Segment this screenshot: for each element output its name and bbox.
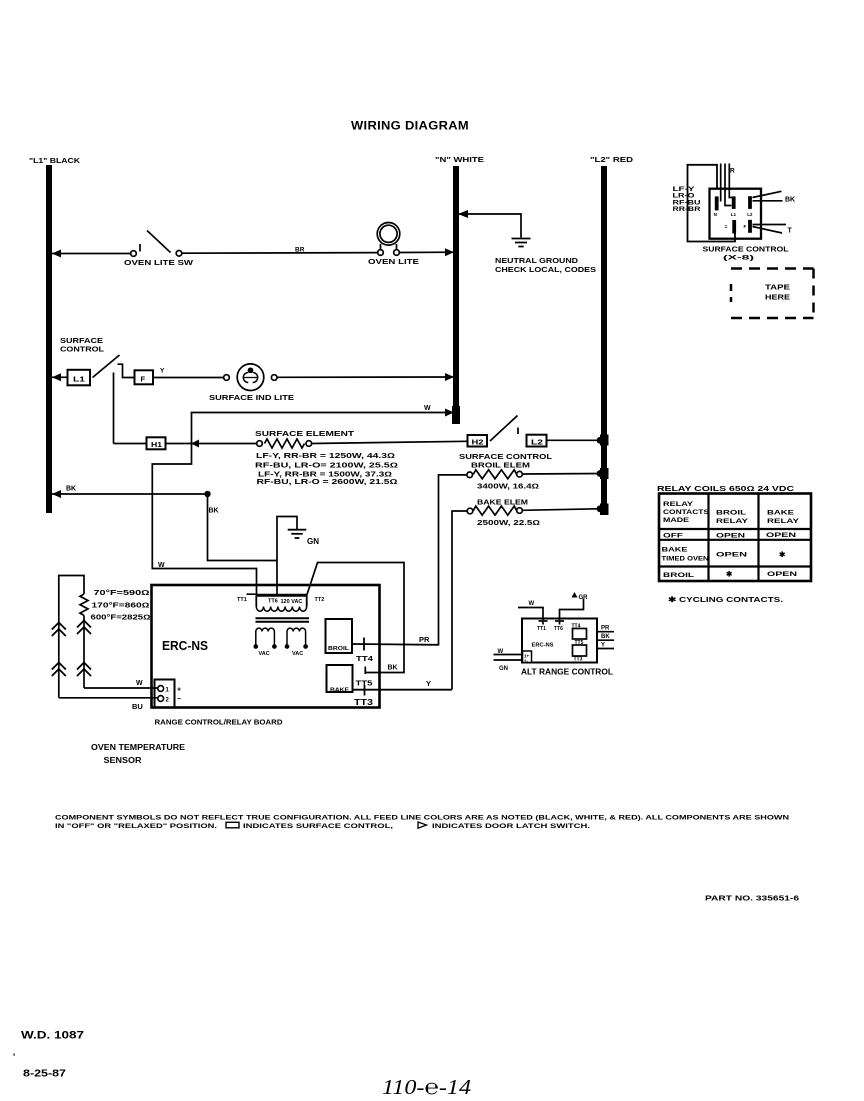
svg-text:N: N [714,212,717,217]
connector X-8 box [710,189,762,239]
junction L1 bus oven-lite [52,250,61,258]
ground neutral [512,239,531,247]
connector pin A [715,196,719,210]
svg-text:1: 1 [166,687,170,693]
svg-text:RELAY COILS 650Ω 24 VDC: RELAY COILS 650Ω 24 VDC [657,486,794,493]
svg-text:BROIL: BROIL [663,572,694,579]
terminal box H2 [468,435,488,447]
svg-text:SURFACE ELEMENT: SURFACE ELEMENT [255,429,355,438]
svg-text:TT4: TT4 [356,654,374,663]
svg-text:W.D. 1087: W.D. 1087 [21,1030,84,1042]
transformer secondary left [254,628,276,648]
svg-text:PART NO. 335651-6: PART NO. 335651-6 [705,896,799,903]
svg-text:LF-Y, RR-BR = 1250W, 44.3Ω: LF-Y, RR-BR = 1250W, 44.3Ω [256,453,395,460]
connector pin E [748,220,752,233]
wire H1 to junction [114,443,257,445]
svg-text:BAKE: BAKE [662,547,689,554]
svg-text:BR: BR [295,247,305,254]
svg-text:VAC: VAC [292,651,303,657]
svg-text:=: = [725,225,728,231]
svg-text:TT6: TT6 [554,626,563,632]
svg-text:RANGE CONTROL/RELAY BOARD: RANGE CONTROL/RELAY BOARD [155,718,284,727]
sensor loop wires [59,576,158,698]
svg-text:70°F=590Ω: 70°F=590Ω [94,589,150,597]
svg-text:RELAY: RELAY [716,518,749,525]
svg-text:RELAY: RELAY [663,501,694,508]
svg-text:LR-O: LR-O [673,194,695,200]
lamp SURFACE IND LITE [224,364,277,391]
svg-text:W: W [158,562,165,569]
svg-text:NEUTRAL GROUND: NEUTRAL GROUND [495,256,579,265]
svg-text:L2: L2 [747,212,753,217]
svg-text:CONTACTS: CONTACTS [663,509,710,516]
svg-text:"N" WHITE: "N" WHITE [435,157,484,164]
svg-text:2500W, 22.5Ω: 2500W, 22.5Ω [477,520,540,527]
wire ind lite to N bus [277,376,455,378]
svg-text:': ' [13,1052,15,1062]
svg-text:3400W, 16.4Ω: 3400W, 16.4Ω [477,484,539,491]
wire L1 bus to L1 box [52,376,67,378]
connector bracket wire [688,165,736,242]
junction L2 bus broil [600,468,609,479]
svg-text:LF-Y, RR-BR = 1500W, 37.3Ω: LF-Y, RR-BR = 1500W, 37.3Ω [258,472,392,479]
svg-text:BAKE ELEM: BAKE ELEM [477,498,528,507]
note symbol surface control box [226,822,239,828]
connector pin D [732,220,736,234]
terminal box F [135,370,154,384]
svg-text:W: W [529,601,535,607]
svg-text:Y: Y [160,368,165,375]
terminal box H1 [147,437,166,449]
svg-text:PR: PR [419,635,430,644]
note symbol door latch triangle [418,822,427,828]
svg-text:BK: BK [209,508,219,515]
wire F to surface ind lite [153,377,224,379]
svg-text:8-25-87: 8-25-87 [23,1069,67,1080]
junction L2 bus bake [600,504,609,516]
svg-text:PR: PR [601,626,610,632]
junction L1 bus surface-control [52,373,61,381]
lamp OVEN LITE [377,223,400,256]
svg-text:BAKE: BAKE [767,510,795,517]
svg-text:HERE: HERE [765,293,790,302]
svg-text:SURFACE IND LITE: SURFACE IND LITE [209,393,294,402]
svg-text:−: − [177,696,181,703]
svg-text:LF-Y: LF-Y [673,187,695,193]
alt right pin wires [597,629,614,653]
svg-text:TT4: TT4 [572,624,581,630]
svg-text:CONTROL: CONTROL [60,345,104,354]
terminal box L2 [527,435,547,447]
svg-text:OVEN LITE SW: OVEN LITE SW [124,260,194,267]
svg-text:GN: GN [307,537,319,546]
svg-text:GR: GR [579,595,589,601]
svg-text:ERC-NS: ERC-NS [162,639,208,653]
svg-text:RF-BU, LR-O = 2600W, 21.5Ω: RF-BU, LR-O = 2600W, 21.5Ω [257,479,398,486]
svg-text:SURFACE CONTROL: SURFACE CONTROL [703,245,789,254]
svg-text:H2: H2 [472,439,484,446]
svg-text:W: W [136,680,143,687]
svg-text:TT6: TT6 [268,599,278,605]
svg-text:R: R [730,168,735,175]
tape here dashed box [731,269,814,319]
svg-text:WIRING DIAGRAM: WIRING DIAGRAM [351,119,469,133]
svg-text:600°F=2825Ω: 600°F=2825Ω [91,614,151,622]
terminal box L1 [68,370,91,386]
wire BK from L1 bus [52,494,277,561]
sensor chevrons left [52,623,66,677]
transformer T1 primary [247,594,308,611]
svg-text:OPEN: OPEN [716,533,745,540]
svg-text:TT1: TT1 [237,597,247,603]
svg-text:Y: Y [426,679,431,688]
resistor surface element [257,439,467,448]
svg-text:BAKE: BAKE [330,688,349,694]
svg-text:✱: ✱ [726,570,733,579]
junction N bus ind-lite [445,373,454,381]
wires BK fork [753,191,783,201]
svg-text:170°F=860Ω: 170°F=860Ω [92,602,150,610]
sensor chevrons right [77,621,91,677]
svg-text:MADE: MADE [663,517,690,524]
svg-text:2: 2 [166,697,170,703]
svg-text:L1: L1 [73,375,85,384]
svg-text:INDICATES SURFACE CONTROL,: INDICATES SURFACE CONTROL, [243,823,393,830]
junction H1/W node [191,440,199,448]
svg-text:OPEN: OPEN [766,532,796,539]
junction BK corner [204,491,210,497]
svg-text:CHECK LOCAL, CODES: CHECK LOCAL, CODES [495,265,596,274]
svg-text:+: + [177,687,181,694]
svg-text:F: F [141,375,146,384]
bus N WHITE [452,166,460,424]
svg-text:(X-8): (X-8) [723,256,754,262]
svg-text:TAPE: TAPE [765,283,790,292]
ERC-NS board [152,585,380,708]
svg-text:L2: L2 [531,439,543,446]
relay BAKE [327,665,353,692]
svg-text:Y: Y [601,642,605,648]
connector feed wires R [721,164,733,206]
svg-text:W: W [498,649,504,655]
svg-text:BROIL ELEM: BROIL ELEM [471,461,530,470]
wire N bus to ground [457,214,521,238]
connector pin B [732,196,736,209]
svg-text:TT2: TT2 [315,597,325,603]
junction L1 bus BK [52,490,61,498]
svg-text:TT5: TT5 [575,640,584,646]
wire GR to alt TT6 [555,599,584,625]
connector pin C [748,196,752,209]
wire TT2 to BK/TT5 [307,563,404,675]
svg-text:120 VAC: 120 VAC [281,599,303,605]
svg-text:BROIL: BROIL [328,646,350,652]
svg-text:RF-BU, LR-O= 2100W, 25.5Ω: RF-BU, LR-O= 2100W, 25.5Ω [255,463,398,470]
wires T fork [753,225,787,234]
svg-text:BU: BU [132,702,143,711]
svg-text:F: F [744,224,747,229]
svg-text:TT1: TT1 [537,626,546,632]
ground GN [288,530,307,538]
svg-text:IN "OFF" OR "RELAXED" POSITION: IN "OFF" OR "RELAXED" POSITION. [55,823,217,830]
switch surface control blade [93,355,135,444]
svg-text:OVEN TEMPERATURE: OVEN TEMPERATURE [91,743,186,752]
wire W line N bus to riser [152,413,455,596]
svg-text:BK: BK [601,634,610,640]
svg-text:BK: BK [785,197,795,204]
board pin box [155,680,175,708]
wire GN riser to transformer [277,517,297,596]
svg-text:RR-BR: RR-BR [673,207,702,213]
alt relay contacts [573,629,587,657]
wire PR TT4 [352,638,439,651]
junction N bus oven-lite [445,248,454,256]
svg-text:INDICATES DOOR LATCH SWITCH.: INDICATES DOOR LATCH SWITCH. [432,823,590,830]
svg-text:OFF: OFF [663,533,683,540]
svg-text:VAC: VAC [259,651,270,657]
label GR with arrow [572,592,578,598]
wire switch to oven lite lamp [182,252,378,255]
relay table grid [659,494,811,582]
svg-text:2-: 2- [524,659,529,664]
svg-text:COMPONENT SYMBOLS DO NOT REFLE: COMPONENT SYMBOLS DO NOT REFLECT TRUE CO… [55,815,789,822]
svg-text:"L2" RED: "L2" RED [590,157,633,164]
switch surface control broil blade [490,416,518,442]
svg-text:"L1" BLACK: "L1" BLACK [29,158,80,165]
junction N bus ground [458,210,468,218]
svg-text:ALT RANGE CONTROL: ALT RANGE CONTROL [521,667,613,677]
svg-text:TT3: TT3 [574,657,583,663]
alt range control box [522,619,597,663]
svg-text:L1: L1 [731,212,737,217]
svg-text:110-℮-14: 110-℮-14 [382,1075,472,1099]
bus L2 RED [601,166,607,515]
wire W to alt TT1 [518,608,548,625]
bus L1 BLACK [46,165,52,513]
transformer core [256,618,310,622]
wire lamp to N bus [399,251,455,253]
wire L2 box to L2 bus [547,439,605,441]
svg-text:W: W [424,405,431,412]
resistor broil element [439,470,605,646]
wire Y TT3 [353,685,453,696]
svg-text:GN: GN [499,666,508,672]
relay BROIL [326,619,353,653]
switch OVEN LITE SW [131,231,182,257]
svg-text:OVEN LITE: OVEN LITE [368,259,419,266]
svg-text:T: T [788,228,793,235]
junction N bus W [445,409,454,417]
svg-text:RF-BU: RF-BU [673,200,701,206]
svg-text:RELAY: RELAY [767,518,800,525]
svg-text:OPEN: OPEN [716,552,748,559]
junction L2 bus [600,435,609,446]
alt left pins W GN [494,651,532,663]
resistor bake element [452,506,604,689]
svg-text:SENSOR: SENSOR [104,756,142,765]
svg-text:BK: BK [388,665,398,672]
svg-text:✱: ✱ [779,550,786,559]
svg-text:✱ CYCLING CONTACTS.: ✱ CYCLING CONTACTS. [668,595,783,604]
wire L1 bus to oven lite switch [52,253,131,255]
svg-text:BK: BK [66,486,76,493]
svg-text:BROIL: BROIL [716,510,746,517]
svg-text:TT3: TT3 [354,698,374,707]
transformer secondary right [285,628,307,648]
svg-text:H1: H1 [151,442,162,449]
svg-text:TIMED OVEN: TIMED OVEN [662,556,709,563]
svg-text:ERC-NS: ERC-NS [532,643,554,649]
svg-text:OPEN: OPEN [767,571,797,578]
